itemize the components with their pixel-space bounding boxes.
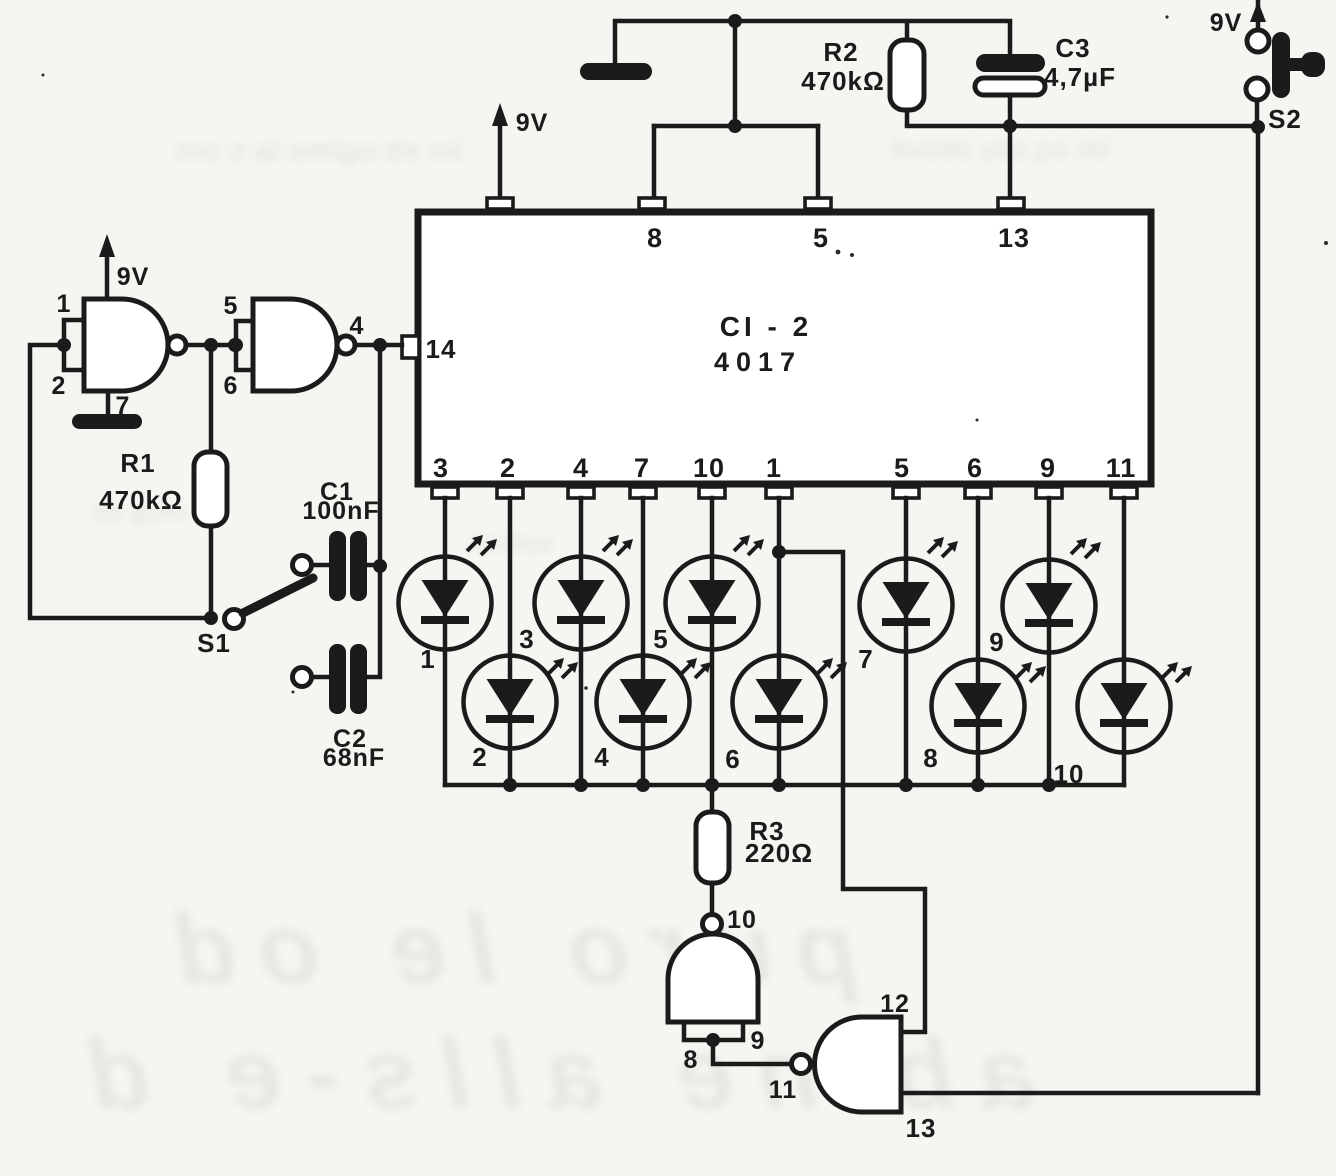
capacitor C1 (293, 531, 381, 601)
svg-text:2: 2 (472, 742, 487, 772)
NAND gate U1d (792, 1017, 902, 1112)
pin tab top (805, 198, 831, 209)
wire to C1 (378, 345, 383, 566)
junction (373, 338, 387, 352)
capacitor C2 (293, 644, 368, 714)
svg-text:9: 9 (1040, 453, 1056, 483)
9V supply arrow at IC (492, 103, 508, 199)
svg-text:R2: R2 (823, 37, 858, 67)
svg-text:14: 14 (426, 334, 457, 364)
ground at U1a pin 7 (72, 391, 142, 429)
svg-text:10: 10 (693, 453, 725, 483)
svg-text:8: 8 (684, 1046, 699, 1074)
LED 8 (932, 660, 1047, 753)
wire pin column to LED 8 (976, 498, 981, 785)
LED 7 (860, 537, 959, 652)
LED 4 (597, 656, 712, 749)
pin tab top (487, 198, 513, 209)
svg-text:7: 7 (634, 453, 650, 483)
svg-text:9V: 9V (516, 109, 549, 137)
svg-text:11: 11 (1106, 453, 1137, 483)
pin tab bottom (965, 487, 991, 498)
ground (580, 23, 652, 80)
LED 6 (733, 656, 848, 749)
junction (899, 778, 913, 792)
pin tab bottom (699, 487, 725, 498)
wire (42, 15, 1329, 693)
LED 2 (464, 656, 579, 749)
wire pin column to LED 5 (710, 498, 715, 785)
wire (654, 124, 818, 129)
junction (57, 338, 71, 352)
wire (733, 21, 738, 126)
wire pin column to LED 1 (443, 498, 448, 785)
wire to C2 (367, 566, 380, 677)
wire input bracket U1b (236, 321, 253, 370)
wire U1c inputs to U1d output (713, 1040, 792, 1064)
wire input bracket U1c (684, 1022, 743, 1040)
pin tab bottom (893, 487, 919, 498)
NAND gate U1c (668, 915, 758, 1023)
wire to S2 (1010, 124, 1258, 129)
LED 3 (535, 535, 634, 650)
svg-text:13: 13 (998, 223, 1030, 253)
NAND gate U1b (253, 299, 355, 391)
wire pin column to LED 6 (777, 498, 782, 785)
svg-text:1: 1 (420, 644, 435, 674)
svg-text:6: 6 (224, 372, 239, 400)
junction (1251, 120, 1265, 134)
NAND gate U1a (84, 299, 186, 391)
wire pin column to LED 9 (1047, 498, 1052, 785)
junction (204, 611, 218, 625)
junction (503, 778, 517, 792)
svg-text:9: 9 (989, 627, 1004, 657)
9V supply arrow at U1a (99, 234, 115, 299)
junction (706, 1033, 720, 1047)
pin tab 14 (402, 336, 419, 358)
svg-text:CI - 2: CI - 2 (720, 311, 812, 342)
svg-text:10: 10 (1054, 759, 1085, 789)
svg-text:470kΩ: 470kΩ (801, 66, 885, 96)
wire pin column to LED 10 (1122, 498, 1127, 785)
svg-text:2: 2 (500, 453, 516, 483)
svg-text:5: 5 (894, 453, 910, 483)
svg-text:470kΩ: 470kΩ (99, 485, 183, 515)
wire feedback loop (30, 345, 210, 618)
svg-text:8: 8 (923, 743, 938, 773)
wire U1b output to pin 14 (355, 343, 402, 348)
svg-text:C3: C3 (1055, 33, 1090, 63)
resistor R2 (890, 21, 924, 126)
switch S1 (225, 578, 314, 629)
resistor R1 (194, 345, 227, 618)
wire to pin 5 (816, 126, 821, 203)
svg-text:5: 5 (813, 223, 829, 253)
pin tab bottom (1111, 487, 1137, 498)
svg-text:1: 1 (766, 453, 782, 483)
svg-text:4: 4 (594, 742, 609, 772)
svg-text:im oq sby obsvil: im oq sby obsvil (890, 133, 1109, 164)
svg-text:S1: S1 (197, 628, 231, 658)
wire to pin 13 (1008, 126, 1013, 203)
pin tab bottom (432, 487, 458, 498)
IC U2 CI-2 4017 body (418, 212, 1151, 484)
wire input bracket U1a (64, 320, 82, 370)
junction (1042, 778, 1056, 792)
junction (228, 338, 242, 352)
LED 10 (1078, 660, 1193, 753)
svg-text:3: 3 (433, 453, 449, 483)
svg-text:1: 1 (57, 290, 72, 318)
pin tab bottom (1036, 487, 1062, 498)
svg-text:13: 13 (906, 1113, 937, 1143)
junction (229, 338, 243, 352)
junction (373, 559, 387, 573)
svg-text:im eb ogims la s om: im eb ogims la s om (177, 134, 464, 167)
junction (574, 778, 588, 792)
svg-text:220Ω: 220Ω (745, 838, 813, 868)
LED 5 (666, 535, 765, 650)
wire pin column to LED 2 (508, 498, 513, 785)
wire (907, 124, 1010, 129)
svg-text:7: 7 (858, 644, 873, 674)
capacitor C3 (975, 21, 1045, 126)
pin tab bottom (766, 487, 792, 498)
junction (705, 778, 719, 792)
svg-text:R1: R1 (120, 448, 155, 478)
svg-text:5: 5 (224, 292, 239, 320)
wire to pin 8 (652, 126, 657, 203)
pin tab top (639, 198, 665, 209)
junction (971, 778, 985, 792)
svg-text:4017: 4017 (714, 347, 802, 377)
junction (728, 119, 742, 133)
LED 9 (1003, 538, 1102, 653)
svg-text:2: 2 (52, 372, 67, 400)
resistor R3 (696, 785, 729, 914)
pin tab bottom (497, 487, 523, 498)
svg-text:8: 8 (647, 223, 663, 253)
svg-text:4,7µF: 4,7µF (1044, 62, 1116, 92)
junction (1003, 119, 1017, 133)
junction (204, 338, 218, 352)
svg-text:12: 12 (880, 990, 910, 1018)
wire pin column to LED 7 (904, 498, 909, 785)
svg-text:7: 7 (116, 392, 131, 420)
svg-text:5: 5 (653, 624, 668, 654)
wire pin column to LED 3 (579, 498, 584, 785)
junction (772, 545, 786, 559)
junction (705, 778, 719, 792)
svg-text:3: 3 (519, 624, 534, 654)
svg-text:9V: 9V (1210, 9, 1243, 37)
pin tab top (998, 198, 1024, 209)
svg-text:6: 6 (967, 453, 983, 483)
wire cathode bus (445, 783, 1124, 788)
wire U1a output (186, 343, 235, 348)
switch S2 (1246, 0, 1325, 127)
wire pin1 tap to gate input 12 (779, 552, 925, 1032)
svg-text:11: 11 (769, 1076, 797, 1104)
junction (636, 778, 650, 792)
svg-text:9V: 9V (117, 263, 150, 291)
svg-text:10: 10 (727, 906, 757, 934)
svg-text:S2: S2 (1268, 104, 1302, 134)
wire top supply bus (615, 19, 1010, 24)
junction (772, 778, 786, 792)
pin tab bottom (630, 487, 656, 498)
svg-text:100nF: 100nF (302, 497, 379, 525)
svg-text:9: 9 (751, 1027, 766, 1055)
svg-text:4: 4 (573, 453, 589, 483)
svg-text:6: 6 (725, 744, 740, 774)
wire S2 to gate input 13 (1256, 127, 1261, 1093)
pin tab bottom (568, 487, 594, 498)
LED 1 (399, 535, 498, 650)
wire pin column to LED 4 (641, 498, 646, 785)
wire gate input 13 (901, 1091, 1258, 1096)
svg-text:4: 4 (350, 312, 365, 340)
junction (728, 14, 742, 28)
svg-text:68nF: 68nF (323, 744, 385, 772)
